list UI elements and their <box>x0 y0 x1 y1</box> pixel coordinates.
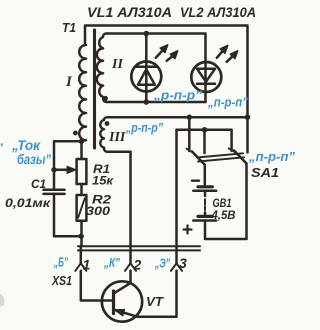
svg-text:SA1: SA1 <box>251 166 279 180</box>
battery stub <box>204 212 207 216</box>
wire: pin3 riser <box>175 130 178 264</box>
wire: VL1 bottom drop <box>145 92 148 103</box>
pin 1 <box>80 246 83 263</box>
pin 2 <box>129 152 132 263</box>
contact tick stub A <box>187 149 194 153</box>
svg-text:III: III <box>108 130 126 145</box>
svg-text:„Б”: „Б” <box>53 256 68 270</box>
node: VL1 bottom junction <box>144 99 150 105</box>
svg-text:0,01мк: 0,01мк <box>5 196 51 210</box>
contact tick stub C <box>229 148 236 152</box>
svg-text:I: I <box>65 74 73 90</box>
switch SA1 right blade <box>234 151 247 164</box>
resistor R2 body <box>77 195 87 221</box>
LED VL2 <box>191 62 221 92</box>
winding II polarity dot <box>103 96 108 101</box>
wire to R1 top <box>80 141 83 159</box>
node winding I bottom <box>79 139 84 144</box>
wire winding III bottom to pin2 <box>108 151 131 154</box>
battery minus sign <box>192 179 199 181</box>
capacitor C1 top wire <box>53 170 56 190</box>
LED VL1 emission arrows <box>156 49 164 57</box>
node at right side <box>245 114 251 120</box>
battery stub <box>204 191 207 196</box>
svg-text:VL2 АЛ310А: VL2 АЛ310А <box>180 4 256 20</box>
svg-text:XS1: XS1 <box>51 274 72 288</box>
svg-text:1: 1 <box>83 257 91 273</box>
R2 power slash <box>78 198 85 217</box>
transistor base lead <box>103 299 114 302</box>
svg-text:2: 2 <box>133 257 142 273</box>
node winding III net to SA1 <box>187 114 193 120</box>
wire: SA1 right common to battery plus <box>205 164 247 240</box>
LED VL1 <box>131 62 161 92</box>
node wiper junction <box>51 167 56 172</box>
wire: VL2 bottom drop <box>204 92 207 102</box>
wire: winding I bottom to left column <box>54 141 82 170</box>
svg-text:базы”: базы” <box>17 151 51 167</box>
wire: winding III top net <box>108 116 248 119</box>
wire: SA1 stub B <box>203 130 206 153</box>
svg-text:„п-р-п”: „п-р-п” <box>248 149 296 164</box>
svg-text:T1: T1 <box>62 20 76 35</box>
capacitor C1 plates <box>44 189 65 192</box>
winding I polarity dot <box>73 131 78 136</box>
svg-text:300: 300 <box>86 204 110 218</box>
transformer T1 winding II <box>97 34 107 103</box>
LED VL2 emission arrows <box>217 50 224 58</box>
capacitor C1 bottom wire <box>54 194 81 236</box>
transformer T1 winding III <box>100 117 108 152</box>
svg-text:II: II <box>111 57 123 72</box>
svg-text:„р-п-р”: „р-п-р” <box>125 120 163 135</box>
wire: winding I top to box right side down to SA1 stub D <box>85 26 248 153</box>
battery GB1 cell 2 short plate <box>198 215 212 218</box>
battery plus sign <box>184 226 192 234</box>
svg-text:”: ” <box>0 141 3 155</box>
wire R1-R2 <box>80 184 83 195</box>
transformer core <box>93 30 96 148</box>
transistor collector <box>114 283 131 294</box>
node: VL1 top junction <box>144 31 150 37</box>
svg-text:C1: C1 <box>31 177 46 191</box>
battery GB1 cell 1 long plate <box>193 190 216 193</box>
connector XS1 rails <box>78 245 200 247</box>
transformer T1 winding I <box>79 45 86 141</box>
battery dashed omission <box>204 199 206 210</box>
transistor base bar <box>112 291 115 314</box>
battery GB1 cell 1 short plate <box>198 185 212 188</box>
svg-text:„р-п-р”: „р-п-р” <box>153 88 203 103</box>
potentiometer R1 wiper arrow <box>54 169 69 172</box>
wire: emitter net horizontal <box>177 130 232 151</box>
pin 3 <box>171 263 182 271</box>
resistor R1 body <box>77 159 87 184</box>
svg-text:„Э”: „Э” <box>154 257 170 271</box>
svg-text:4,5В: 4,5В <box>211 208 236 222</box>
svg-text:VL1 АЛ310А: VL1 АЛ310А <box>87 4 172 20</box>
wire: SA1 stub A <box>188 117 191 151</box>
svg-text:„К”: „К” <box>103 256 120 270</box>
smudge bottom left <box>0 294 4 307</box>
switch SA1 linkage <box>197 153 243 157</box>
transistor emitter with arrow <box>114 310 138 317</box>
wire: SA1 left common to battery minus <box>204 165 207 187</box>
wire: winding II bottom rail <box>107 101 206 104</box>
wire R2 bottom <box>80 221 83 247</box>
node R2/C1/pin1 junction <box>79 234 84 239</box>
wire: VL1 top drop <box>145 34 148 62</box>
node emitter net to SA1 stub B <box>202 127 208 133</box>
svg-text:3: 3 <box>179 255 187 271</box>
battery GB1 cell 2 long plate <box>193 219 216 222</box>
svg-text:15к: 15к <box>92 174 114 188</box>
winding III polarity dot <box>105 121 110 126</box>
svg-text:VT: VT <box>146 294 164 309</box>
transistor VT circle <box>102 281 142 321</box>
svg-text:„п-р-п”: „п-р-п” <box>207 95 248 110</box>
switch SA1 left blade <box>192 152 205 165</box>
wire: winding II top rail to VL2 top <box>107 34 206 63</box>
